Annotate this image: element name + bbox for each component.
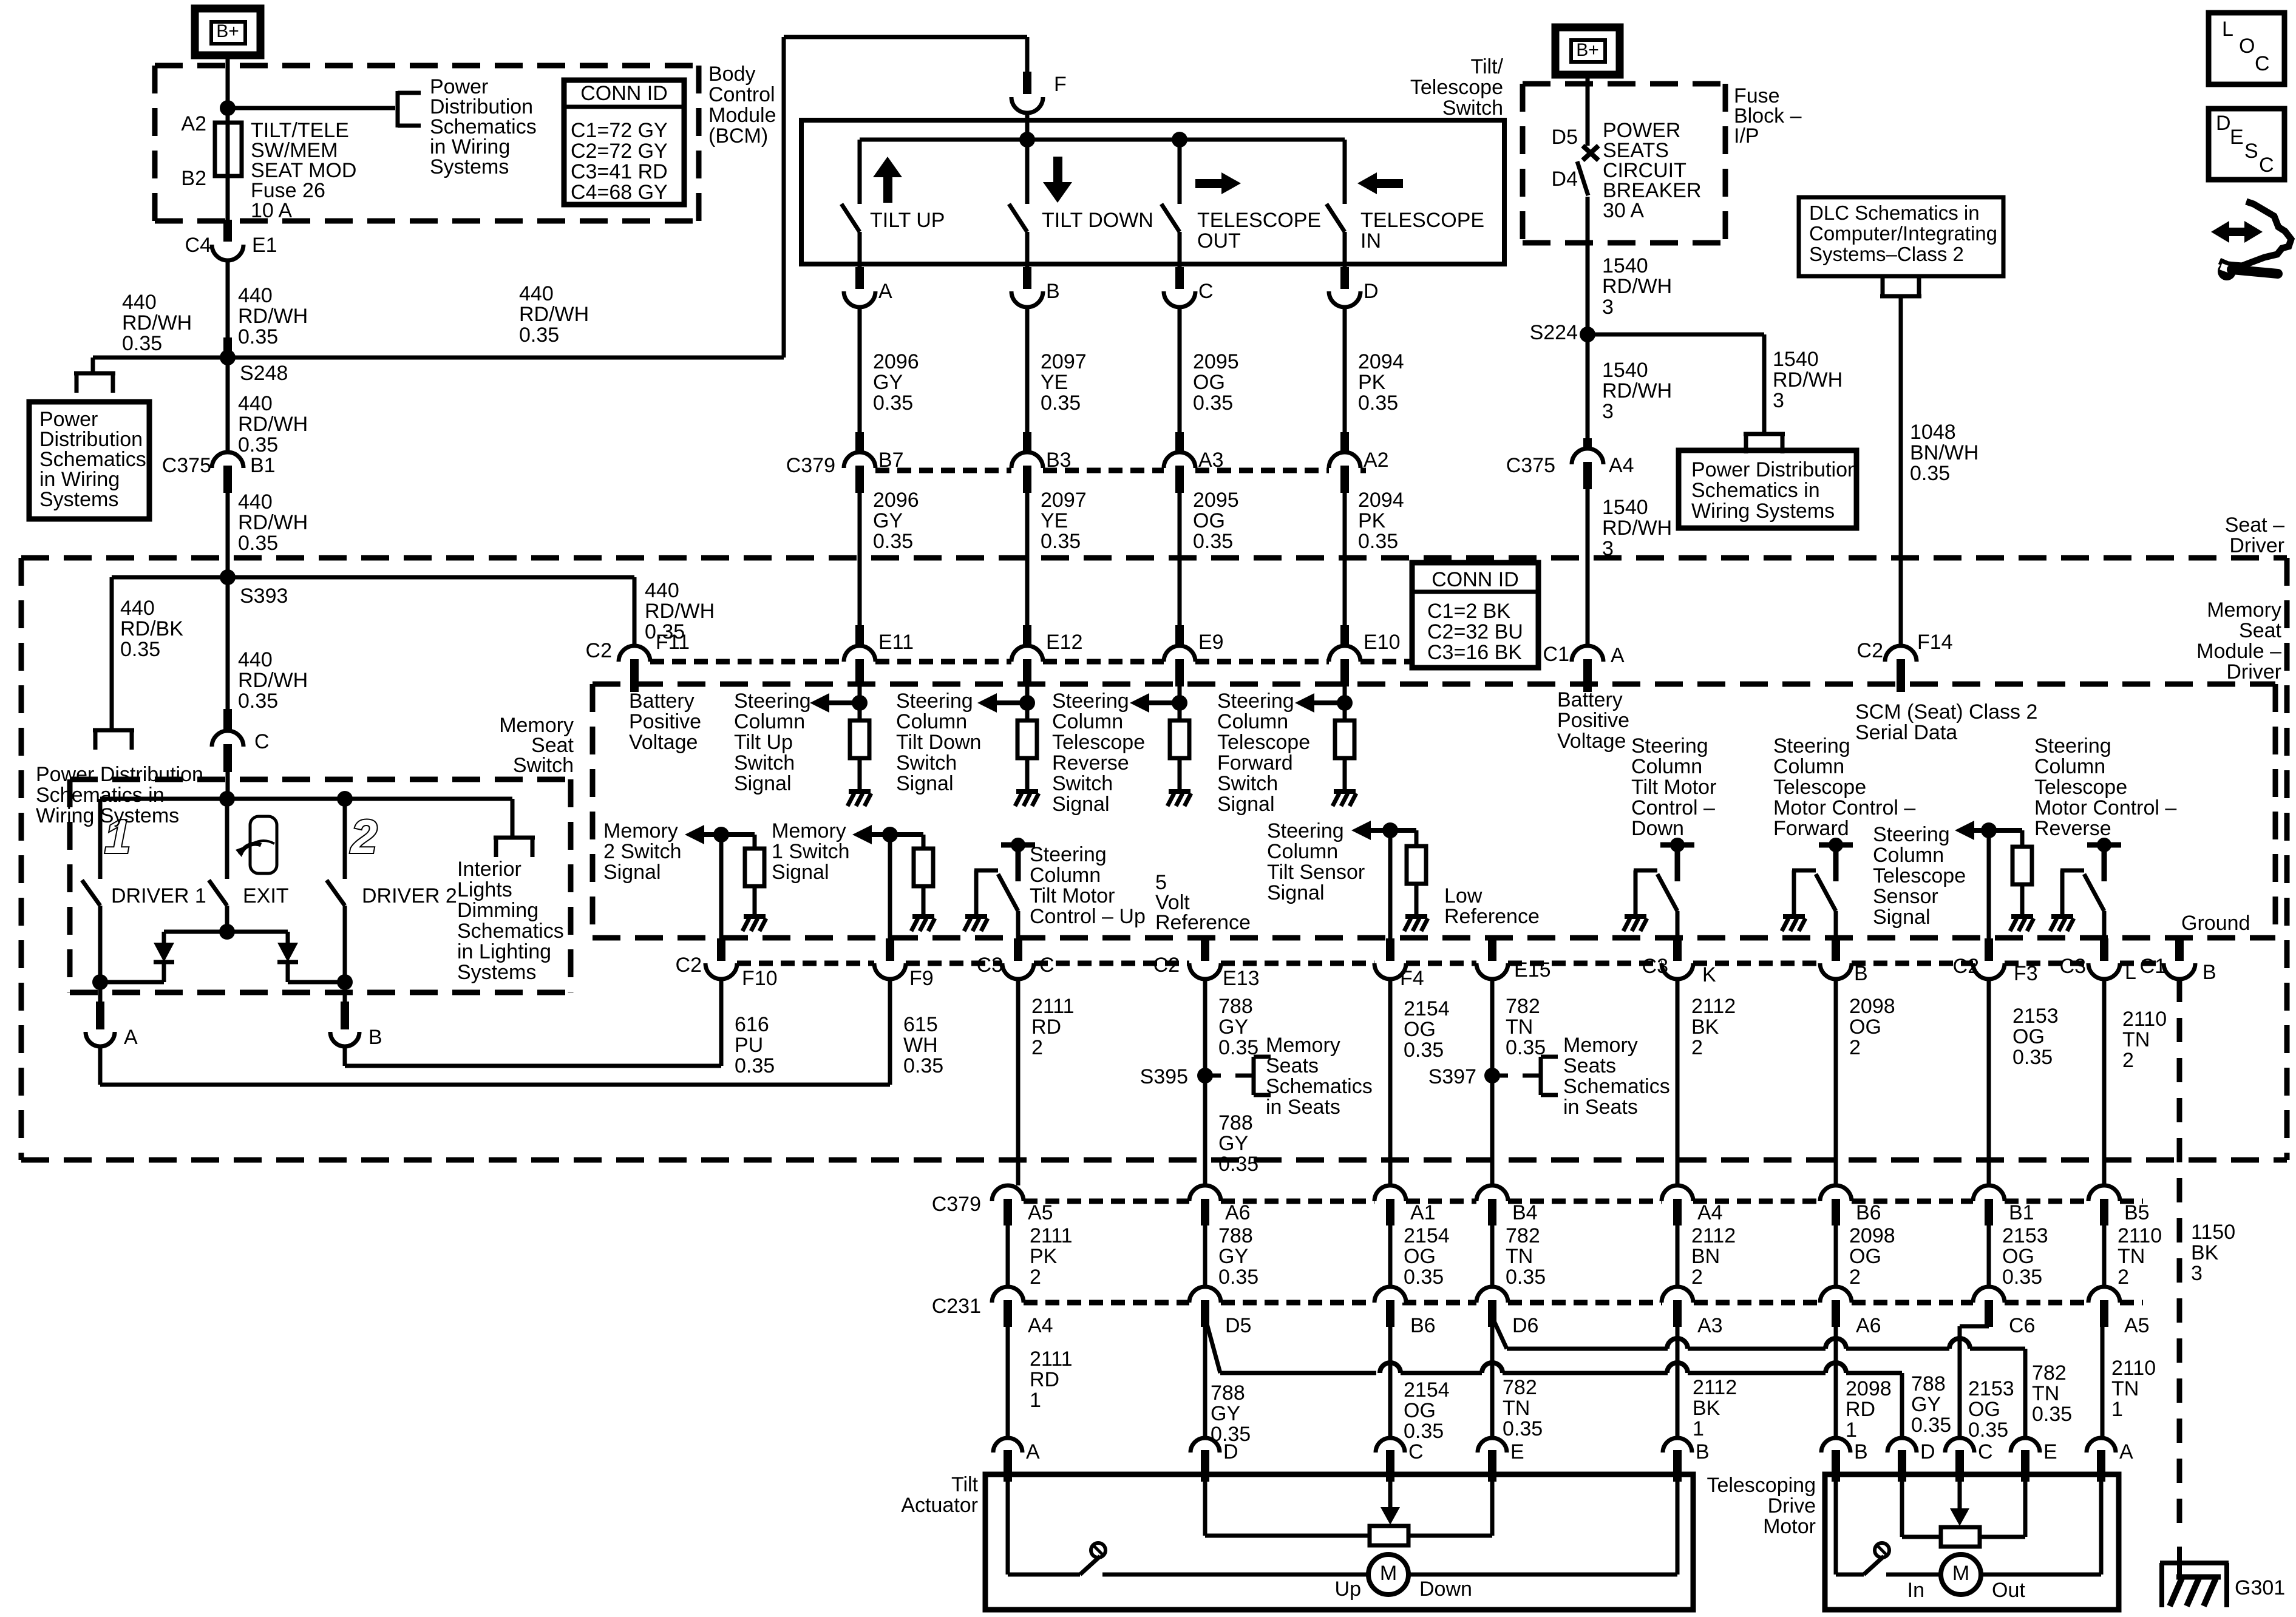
svg-text:Steering: Steering	[1217, 690, 1294, 713]
svg-text:E: E	[2230, 126, 2244, 149]
svg-text:Telescoping: Telescoping	[1707, 1474, 1816, 1497]
svg-text:2094: 2094	[1358, 350, 1404, 373]
svg-text:Switch: Switch	[896, 751, 957, 775]
svg-text:2110: 2110	[2118, 1224, 2162, 1247]
svg-text:Memory: Memory	[772, 819, 846, 842]
svg-text:D: D	[1920, 1440, 1935, 1463]
svg-text:0.35: 0.35	[2032, 1403, 2072, 1426]
svg-text:Steering: Steering	[896, 690, 973, 713]
svg-text:Systems–Class 2: Systems–Class 2	[1809, 243, 1964, 265]
svg-text:A3: A3	[1697, 1314, 1723, 1337]
svg-text:Steering: Steering	[734, 690, 811, 713]
svg-text:Steering: Steering	[1267, 819, 1344, 842]
svg-text:C379: C379	[932, 1193, 981, 1216]
svg-text:2: 2	[1691, 1036, 1703, 1059]
svg-text:Telescope: Telescope	[1873, 864, 1966, 887]
svg-text:0.35: 0.35	[519, 324, 559, 347]
svg-text:440: 440	[519, 282, 554, 305]
svg-text:Tilt Motor: Tilt Motor	[1030, 884, 1115, 907]
svg-text:Systems: Systems	[457, 961, 536, 984]
svg-text:0.35: 0.35	[122, 332, 162, 355]
svg-text:A6: A6	[1856, 1314, 1881, 1337]
svg-text:Tilt/: Tilt/	[1470, 55, 1503, 78]
svg-text:TN: TN	[2111, 1377, 2139, 1400]
svg-text:S224: S224	[1530, 321, 1578, 344]
svg-text:2096: 2096	[873, 489, 919, 512]
svg-text:2: 2	[1849, 1266, 1861, 1289]
svg-text:B3: B3	[1046, 449, 1072, 472]
svg-text:E9: E9	[1198, 631, 1224, 654]
svg-text:OG: OG	[2012, 1025, 2045, 1048]
svg-text:B: B	[1696, 1440, 1710, 1463]
svg-text:Systems: Systems	[430, 155, 509, 178]
svg-text:WH: WH	[903, 1034, 938, 1057]
svg-text:2: 2	[1691, 1266, 1703, 1289]
svg-text:0.35: 0.35	[1404, 1039, 1444, 1062]
svg-text:F3: F3	[2014, 962, 2038, 985]
svg-text:0.35: 0.35	[1218, 1266, 1258, 1289]
svg-text:EXIT: EXIT	[243, 884, 289, 907]
svg-text:S397: S397	[1428, 1065, 1476, 1088]
svg-text:2094: 2094	[1358, 489, 1404, 512]
svg-text:F4: F4	[1400, 967, 1424, 990]
svg-text:B6: B6	[1410, 1314, 1436, 1337]
svg-text:CONN ID: CONN ID	[580, 82, 668, 105]
svg-text:OG: OG	[1849, 1245, 1881, 1268]
svg-text:2153: 2153	[2012, 1005, 2059, 1028]
svg-text:Reverse: Reverse	[1052, 751, 1129, 775]
svg-text:B1: B1	[2009, 1201, 2034, 1224]
svg-text:SCM (Seat) Class 2: SCM (Seat) Class 2	[1855, 700, 2037, 724]
svg-text:C1: C1	[2140, 955, 2166, 978]
svg-text:Out: Out	[1992, 1579, 2025, 1602]
svg-text:PU: PU	[735, 1034, 763, 1057]
svg-text:Telescope: Telescope	[1052, 731, 1145, 754]
svg-text:2153: 2153	[2002, 1224, 2048, 1247]
svg-text:A: A	[124, 1026, 138, 1049]
svg-text:2111: 2111	[1030, 1347, 1073, 1371]
svg-text:440: 440	[238, 490, 273, 514]
svg-text:2: 2	[1849, 1036, 1861, 1059]
svg-text:Schematics in: Schematics in	[1691, 479, 1820, 502]
svg-text:S: S	[2244, 140, 2258, 163]
svg-text:C: C	[2259, 154, 2274, 177]
svg-text:C4=68 GY: C4=68 GY	[571, 181, 668, 204]
svg-text:Column: Column	[1631, 755, 1702, 778]
svg-text:GY: GY	[1911, 1393, 1941, 1416]
svg-text:C: C	[1408, 1440, 1424, 1463]
svg-text:Seats: Seats	[1563, 1054, 1616, 1077]
svg-text:RD/WH: RD/WH	[238, 305, 308, 328]
svg-text:2097: 2097	[1041, 489, 1087, 512]
svg-text:Steering: Steering	[1773, 734, 1850, 758]
svg-text:L: L	[2222, 18, 2233, 41]
svg-text:Signal: Signal	[734, 772, 792, 795]
svg-text:Telescope: Telescope	[2034, 776, 2127, 799]
svg-text:A5: A5	[1028, 1201, 1053, 1224]
svg-text:2110: 2110	[2111, 1357, 2156, 1380]
svg-text:RD/WH: RD/WH	[122, 311, 192, 334]
svg-text:C4: C4	[185, 234, 211, 257]
svg-text:F10: F10	[742, 967, 778, 990]
svg-text:Module: Module	[708, 104, 776, 127]
svg-text:0.35: 0.35	[1041, 392, 1081, 415]
svg-text:Signal: Signal	[896, 772, 954, 795]
svg-text:RD/WH: RD/WH	[1602, 517, 1672, 540]
svg-text:C375: C375	[162, 454, 211, 477]
svg-text:B: B	[369, 1026, 382, 1049]
svg-text:0.35: 0.35	[2002, 1266, 2042, 1289]
svg-text:3: 3	[2191, 1262, 2203, 1285]
svg-text:0.35: 0.35	[1503, 1417, 1543, 1440]
svg-text:Tilt Down: Tilt Down	[896, 731, 981, 754]
svg-text:C: C	[254, 730, 270, 753]
svg-text:Motor Control –: Motor Control –	[2034, 796, 2176, 819]
svg-text:E: E	[1510, 1440, 1524, 1463]
svg-text:30 A: 30 A	[1603, 199, 1644, 222]
svg-text:0.35: 0.35	[1218, 1036, 1258, 1059]
svg-text:2: 2	[2122, 1049, 2134, 1072]
svg-text:GY: GY	[873, 371, 903, 394]
svg-text:Memory: Memory	[1563, 1034, 1638, 1057]
svg-text:2112: 2112	[1693, 1376, 1737, 1399]
svg-text:GY: GY	[1211, 1402, 1240, 1425]
svg-text:0.35: 0.35	[238, 532, 278, 555]
svg-text:0.35: 0.35	[873, 530, 913, 553]
svg-text:Control –: Control –	[1631, 796, 1715, 819]
svg-text:2098: 2098	[1849, 995, 1895, 1018]
svg-text:Tilt Sensor: Tilt Sensor	[1267, 861, 1365, 884]
svg-text:1: 1	[1030, 1389, 1041, 1412]
svg-text:Motor: Motor	[1763, 1515, 1816, 1538]
svg-text:Battery: Battery	[1557, 688, 1623, 711]
svg-text:S248: S248	[240, 362, 288, 385]
svg-text:2: 2	[350, 810, 377, 863]
svg-text:Signal: Signal	[1873, 906, 1931, 929]
svg-text:Seat: Seat	[2239, 619, 2281, 642]
svg-text:A: A	[1026, 1440, 1040, 1463]
svg-text:0.35: 0.35	[873, 392, 913, 415]
svg-text:0.35: 0.35	[1041, 530, 1081, 553]
svg-text:1: 1	[2111, 1398, 2123, 1421]
svg-text:B7: B7	[878, 449, 904, 472]
svg-text:RD: RD	[1031, 1015, 1061, 1039]
svg-text:Memory: Memory	[603, 819, 678, 842]
svg-text:OG: OG	[1193, 509, 1225, 532]
svg-text:0.35: 0.35	[1358, 392, 1398, 415]
svg-text:1: 1	[1846, 1419, 1857, 1442]
svg-text:0.35: 0.35	[1404, 1420, 1444, 1443]
svg-text:F9: F9	[909, 967, 934, 990]
svg-text:Reference: Reference	[1444, 905, 1540, 928]
svg-text:K: K	[1702, 963, 1716, 986]
svg-text:D5: D5	[1225, 1314, 1251, 1337]
svg-text:M: M	[1380, 1562, 1397, 1585]
svg-text:0.35: 0.35	[1910, 462, 1950, 485]
svg-text:B+: B+	[216, 21, 239, 41]
svg-text:0.35: 0.35	[1193, 392, 1233, 415]
svg-text:C3: C3	[1642, 955, 1668, 978]
svg-text:GY: GY	[873, 509, 903, 532]
svg-text:1 Switch: 1 Switch	[772, 840, 850, 863]
svg-text:E11: E11	[878, 631, 914, 654]
svg-text:Drive: Drive	[1768, 1494, 1816, 1517]
svg-text:E: E	[2043, 1440, 2057, 1463]
svg-text:Sensor: Sensor	[1873, 885, 1938, 908]
svg-text:BK: BK	[2191, 1241, 2219, 1264]
svg-text:BN/WH: BN/WH	[1910, 441, 1978, 464]
svg-text:0.35: 0.35	[1506, 1266, 1546, 1289]
svg-text:D: D	[1364, 280, 1379, 303]
svg-text:E1: E1	[252, 234, 277, 257]
svg-text:B: B	[1854, 1440, 1868, 1463]
svg-text:Signal: Signal	[603, 861, 661, 884]
svg-text:788: 788	[1218, 1224, 1253, 1247]
svg-text:L: L	[2125, 961, 2136, 984]
svg-text:Steering: Steering	[1030, 843, 1107, 866]
svg-text:Computer/Integrating: Computer/Integrating	[1809, 222, 1997, 245]
svg-text:0.35: 0.35	[2012, 1046, 2053, 1069]
svg-text:Up: Up	[1335, 1578, 1361, 1601]
svg-text:3: 3	[1602, 400, 1614, 423]
svg-text:TN: TN	[1503, 1397, 1530, 1420]
svg-text:2: 2	[1030, 1266, 1041, 1289]
svg-text:C3=16 BK: C3=16 BK	[1427, 641, 1522, 664]
svg-text:Column: Column	[1030, 864, 1101, 887]
svg-text:0.35: 0.35	[120, 638, 160, 661]
svg-text:0.35: 0.35	[238, 325, 278, 348]
svg-text:Positive: Positive	[629, 710, 701, 733]
svg-text:Switch: Switch	[1442, 97, 1503, 120]
svg-text:TN: TN	[2118, 1245, 2145, 1268]
svg-text:TN: TN	[2122, 1028, 2150, 1051]
svg-text:RD/WH: RD/WH	[645, 600, 715, 623]
svg-text:PK: PK	[1030, 1245, 1058, 1268]
svg-text:OG: OG	[1968, 1398, 2000, 1421]
svg-text:2098: 2098	[1849, 1224, 1895, 1247]
svg-text:Steering: Steering	[1873, 823, 1950, 846]
svg-text:RD/WH: RD/WH	[519, 303, 589, 326]
svg-text:A2: A2	[1364, 449, 1389, 472]
svg-text:2098: 2098	[1846, 1377, 1892, 1400]
svg-text:Column: Column	[1773, 755, 1844, 778]
svg-text:Down: Down	[1419, 1578, 1472, 1601]
svg-text:B1: B1	[250, 454, 276, 477]
svg-text:2 Switch: 2 Switch	[603, 840, 682, 863]
svg-text:Switch: Switch	[734, 751, 795, 775]
svg-text:A1: A1	[1410, 1201, 1436, 1224]
svg-text:C6: C6	[2009, 1314, 2035, 1337]
svg-text:YE: YE	[1041, 509, 1068, 532]
svg-text:Column: Column	[1873, 844, 1944, 867]
svg-text:Column: Column	[1052, 710, 1123, 733]
svg-text:DRIVER 1: DRIVER 1	[111, 884, 206, 907]
svg-text:(BCM): (BCM)	[708, 124, 768, 147]
svg-text:C375: C375	[1506, 454, 1555, 477]
svg-text:OG: OG	[1849, 1015, 1881, 1039]
svg-text:YE: YE	[1041, 371, 1068, 394]
svg-text:Ground: Ground	[2181, 912, 2250, 935]
svg-text:440: 440	[238, 648, 273, 671]
svg-text:B2: B2	[181, 167, 206, 190]
svg-text:C2=72 GY: C2=72 GY	[571, 140, 668, 163]
svg-text:788: 788	[1218, 995, 1253, 1018]
svg-text:C: C	[2255, 52, 2270, 75]
svg-text:Interior: Interior	[457, 858, 521, 881]
svg-text:1540: 1540	[1602, 359, 1648, 382]
svg-text:A: A	[1611, 644, 1625, 667]
svg-text:Telescope: Telescope	[1217, 731, 1310, 754]
svg-text:C: C	[1978, 1440, 1993, 1463]
svg-text:S395: S395	[1140, 1065, 1188, 1088]
svg-text:Column: Column	[1217, 710, 1288, 733]
svg-text:B5: B5	[2124, 1201, 2150, 1224]
svg-text:788: 788	[1911, 1372, 1946, 1395]
svg-text:RD/WH: RD/WH	[238, 511, 308, 534]
svg-text:F: F	[1054, 73, 1067, 96]
svg-text:in Seats: in Seats	[1266, 1096, 1340, 1119]
svg-text:0.35: 0.35	[1218, 1153, 1258, 1176]
svg-text:D5: D5	[1552, 126, 1578, 149]
svg-text:IN: IN	[1360, 229, 1381, 253]
svg-text:Forward: Forward	[1217, 751, 1293, 775]
svg-text:C3: C3	[977, 954, 1003, 977]
svg-text:RD/WH: RD/WH	[238, 669, 308, 692]
svg-text:Tilt: Tilt	[951, 1473, 979, 1496]
svg-text:788: 788	[1211, 1381, 1245, 1405]
svg-text:C: C	[1039, 954, 1055, 977]
svg-text:B4: B4	[1512, 1201, 1538, 1224]
svg-text:C231: C231	[932, 1295, 981, 1318]
svg-text:Forward: Forward	[1773, 817, 1849, 840]
svg-text:0.35: 0.35	[903, 1054, 943, 1077]
svg-text:Power Distribution: Power Distribution	[1691, 458, 1859, 481]
svg-text:2095: 2095	[1193, 489, 1239, 512]
svg-text:C2: C2	[586, 639, 612, 662]
svg-text:Down: Down	[1631, 817, 1684, 840]
svg-text:0.35: 0.35	[1193, 530, 1233, 553]
svg-text:1: 1	[1693, 1417, 1704, 1440]
svg-text:Schematics: Schematics	[1563, 1075, 1670, 1098]
svg-text:Wiring Systems: Wiring Systems	[36, 804, 179, 827]
svg-text:RD: RD	[1846, 1398, 1875, 1421]
svg-text:Schematics: Schematics	[457, 920, 564, 943]
svg-text:788: 788	[1218, 1111, 1253, 1134]
svg-text:Schematics in: Schematics in	[36, 784, 165, 807]
svg-text:C2: C2	[1857, 639, 1883, 662]
svg-text:TILT UP: TILT UP	[870, 209, 945, 232]
svg-text:Seat –: Seat –	[2225, 514, 2284, 537]
svg-text:E15: E15	[1514, 958, 1551, 981]
svg-text:OUT: OUT	[1197, 229, 1241, 253]
svg-text:A5: A5	[2124, 1314, 2150, 1337]
svg-text:1540: 1540	[1602, 254, 1648, 277]
svg-text:OG: OG	[1404, 1245, 1436, 1268]
svg-text:Switch: Switch	[513, 754, 574, 777]
svg-text:Seats: Seats	[1266, 1054, 1319, 1077]
svg-text:CONN ID: CONN ID	[1432, 568, 1519, 591]
svg-text:Module –: Module –	[2196, 640, 2281, 663]
svg-text:D4: D4	[1552, 168, 1578, 191]
svg-text:PK: PK	[1358, 371, 1386, 394]
svg-text:Switch: Switch	[1052, 772, 1113, 795]
svg-text:DRIVER 2: DRIVER 2	[362, 884, 457, 907]
svg-text:DLC Schematics in: DLC Schematics in	[1809, 202, 1980, 224]
svg-text:A2: A2	[181, 112, 206, 135]
svg-text:Driver: Driver	[2229, 534, 2284, 557]
svg-text:C: C	[1198, 280, 1214, 303]
svg-text:A3: A3	[1198, 449, 1224, 472]
svg-text:1540: 1540	[1773, 348, 1819, 371]
svg-text:in Lighting: in Lighting	[457, 940, 551, 963]
svg-text:2153: 2153	[1968, 1377, 2014, 1400]
svg-text:616: 616	[735, 1013, 769, 1036]
svg-text:E10: E10	[1364, 631, 1401, 654]
svg-text:Control: Control	[708, 83, 775, 106]
svg-text:B+: B+	[1576, 40, 1599, 60]
svg-text:TN: TN	[1506, 1015, 1533, 1039]
svg-text:C379: C379	[786, 454, 835, 477]
svg-text:Memory: Memory	[1266, 1034, 1340, 1057]
svg-text:S393: S393	[240, 585, 288, 608]
svg-text:Dimming: Dimming	[457, 899, 538, 922]
svg-text:B: B	[2203, 961, 2216, 984]
svg-text:440: 440	[122, 291, 157, 314]
svg-text:3: 3	[1602, 296, 1614, 319]
svg-text:Steering: Steering	[1052, 690, 1129, 713]
svg-text:Control – Up: Control – Up	[1030, 905, 1146, 928]
svg-text:2111: 2111	[1031, 995, 1075, 1018]
svg-text:3: 3	[1602, 537, 1614, 560]
svg-text:E12: E12	[1046, 631, 1083, 654]
svg-text:C2: C2	[1153, 954, 1180, 977]
svg-text:G301: G301	[2235, 1576, 2285, 1599]
svg-text:615: 615	[903, 1013, 938, 1036]
svg-text:Voltage: Voltage	[629, 731, 698, 754]
svg-text:1048: 1048	[1910, 421, 1956, 444]
svg-text:GY: GY	[1218, 1132, 1248, 1155]
svg-text:Tilt Motor: Tilt Motor	[1631, 776, 1716, 799]
svg-text:2: 2	[2118, 1266, 2129, 1289]
svg-text:M: M	[1952, 1562, 1969, 1585]
svg-text:2112: 2112	[1691, 1224, 1736, 1247]
svg-text:2111: 2111	[1030, 1224, 1073, 1247]
svg-text:RD/WH: RD/WH	[1602, 275, 1672, 298]
svg-text:440: 440	[238, 284, 273, 307]
svg-text:Telescope: Telescope	[1410, 76, 1503, 99]
svg-text:TN: TN	[1506, 1245, 1533, 1268]
svg-text:Steering: Steering	[2034, 734, 2111, 758]
svg-text:440: 440	[645, 579, 679, 602]
svg-text:Steering: Steering	[1631, 734, 1708, 758]
svg-text:GY: GY	[1218, 1245, 1248, 1268]
svg-text:782: 782	[1506, 1224, 1540, 1247]
svg-text:GY: GY	[1218, 1015, 1248, 1039]
svg-text:C1=2 BK: C1=2 BK	[1427, 600, 1510, 623]
svg-text:0.35: 0.35	[735, 1054, 775, 1077]
svg-text:Body: Body	[708, 63, 756, 86]
svg-text:O: O	[2239, 35, 2255, 58]
svg-text:Column: Column	[1267, 840, 1338, 863]
svg-text:Serial Data: Serial Data	[1855, 721, 1957, 744]
svg-text:2154: 2154	[1404, 1224, 1450, 1247]
svg-text:440: 440	[238, 392, 273, 415]
svg-text:Reverse: Reverse	[2034, 817, 2111, 840]
svg-text:Signal: Signal	[1267, 881, 1325, 904]
svg-text:Column: Column	[2034, 755, 2105, 778]
svg-text:0.35: 0.35	[238, 690, 278, 713]
svg-text:E13: E13	[1223, 967, 1260, 990]
